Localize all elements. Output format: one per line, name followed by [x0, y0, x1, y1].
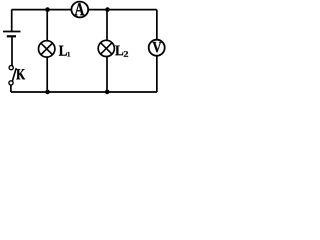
node bottom-right junction (L2 branch) — [105, 90, 110, 95]
switch K lower contact — [9, 81, 13, 85]
switch K blade — [12, 68, 16, 81]
wire L2 branch upper — [106, 10, 108, 41]
wire right vertical lower — [156, 55, 158, 92]
wire L1 branch lower — [46, 57, 48, 92]
ammeter A — [71, 2, 88, 18]
lamp L1 — [39, 41, 55, 57]
wire switch to bottom — [10, 85, 12, 92]
label K — [16, 69, 25, 79]
wire top horizontal — [12, 9, 157, 11]
wire bottom horizontal — [11, 91, 157, 93]
lamp L2 — [98, 40, 114, 56]
battery short plate (-) — [7, 35, 16, 37]
voltmeter V — [149, 40, 165, 56]
node top-left junction (L1 branch) — [45, 7, 50, 12]
wire L1 branch upper — [46, 10, 48, 41]
wire left vertical upper (to battery) — [11, 10, 13, 32]
node top-right junction (L2 branch) — [105, 7, 110, 12]
label L2 — [115, 46, 123, 56]
battery long plate (+) — [3, 31, 21, 33]
wire right vertical upper — [156, 10, 158, 41]
switch K top contact — [9, 66, 13, 70]
node bottom-left junction (L1 branch) — [45, 90, 50, 95]
wire battery to switch — [11, 36, 13, 65]
label L1 — [59, 46, 67, 56]
wire L2 branch lower — [106, 57, 108, 93]
